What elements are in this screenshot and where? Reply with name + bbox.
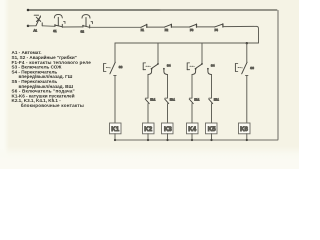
wire: S3 column upper — [114, 43, 116, 62]
selector switch S4 (forward/off/reverse GSh) — [143, 63, 167, 75]
svg-text:блокировочные контакты: блокировочные контакты — [21, 102, 84, 108]
coil K3 — [162, 123, 174, 134]
wire: K4 to bottom rail — [191, 134, 193, 140]
node: K4 junction on bottom rail — [191, 139, 193, 141]
wire: control bus S1 to S2 — [62, 26, 83, 28]
wire: S6 column lower to coil K6 — [246, 76, 248, 124]
wire: branch to K5 — [211, 75, 213, 98]
wire: branch to K3 — [167, 75, 169, 98]
switch S3 (coolant on-switch) — [104, 62, 117, 75]
wire: top supply bus — [28, 9, 161, 11]
switch S6 (feed on-switch) — [235, 62, 248, 75]
wire: ladder top rail — [115, 42, 259, 44]
interlock contact K4.1 — [189, 98, 193, 104]
coil K1 — [110, 123, 122, 134]
contact F2 (thermal relay) — [165, 24, 172, 27]
pushbutton S2 (emergency mushroom) — [82, 15, 93, 28]
svg-text:K4: K4 — [188, 126, 196, 133]
wire: K1 to bottom rail — [114, 134, 116, 140]
wire: control bus F1 to F2 — [147, 26, 165, 28]
svg-text:K2.1: K2.1 — [150, 99, 156, 102]
wire: control bus S2 to F1 — [90, 26, 141, 28]
node: left terminal of control bus — [27, 25, 30, 28]
svg-text:K3.1: K3.1 — [170, 99, 176, 102]
svg-text:S2: S2 — [81, 30, 85, 34]
svg-text:F1: F1 — [141, 28, 145, 32]
interlock contact K2.1 — [145, 98, 149, 104]
svg-text:K3: K3 — [164, 126, 172, 133]
interlock contact K5.1 — [209, 98, 213, 104]
coil K4 — [187, 123, 199, 134]
wire: S4 column drop — [157, 43, 159, 63]
svg-text:K1: K1 — [111, 126, 119, 133]
wire: control bus segment to A1 — [28, 25, 36, 27]
node: K2 junction on bottom rail — [147, 139, 149, 141]
contact F1 (thermal relay) — [141, 24, 147, 27]
coil K2 — [143, 123, 155, 134]
wire: branch K3 contact to coil — [167, 104, 169, 124]
legend text block — [12, 50, 92, 108]
svg-text:A1: A1 — [34, 28, 38, 32]
node: K1 junction on bottom rail — [114, 139, 116, 141]
node: left terminal of top bus — [27, 9, 30, 12]
node: K5 junction on bottom rail — [210, 139, 212, 141]
svg-text:F4: F4 — [215, 28, 219, 32]
svg-text:K4.1: K4.1 — [194, 99, 200, 102]
wire: S3 column lower to coil K1 — [114, 76, 116, 124]
wire: control bus F4 to right corner, down to ladder rail — [223, 26, 258, 43]
node: K3 junction on bottom rail — [166, 139, 168, 141]
contact F4 (thermal relay) — [215, 24, 223, 27]
svg-text:K6: K6 — [240, 126, 248, 133]
contact F3 (thermal relay) — [190, 24, 197, 27]
pushbutton S1 (emergency mushroom) — [54, 14, 65, 27]
svg-text:S4: S4 — [211, 63, 215, 67]
wire: S5 column drop — [201, 43, 203, 63]
wire: branch K5 contact to coil — [211, 104, 213, 124]
interlock contact K3.1 — [165, 98, 169, 104]
wire: control bus F2 to F3 — [172, 26, 190, 28]
wire: K6 to bottom rail — [246, 134, 248, 140]
wire: right side down-rail — [277, 11, 279, 140]
wire: branch to K2 — [147, 75, 149, 98]
wire: K5 to bottom rail — [211, 134, 213, 140]
node: K6 junction on bottom rail — [246, 139, 248, 141]
wire: control bus F3 to F4 — [197, 26, 215, 28]
wire: branch to K4 — [191, 75, 193, 98]
wire: top supply bus right half — [160, 9, 277, 11]
svg-text:K5.1: K5.1 — [214, 99, 220, 102]
wire: control bus A1 to S1 — [42, 25, 55, 28]
svg-text:S4: S4 — [167, 63, 171, 67]
selector switch S5 (forward/off/reverse VSh) — [187, 63, 211, 75]
svg-text:S3: S3 — [119, 65, 123, 69]
svg-text:S6: S6 — [250, 66, 254, 70]
wire: K2 to bottom rail — [147, 134, 149, 140]
svg-text:S1: S1 — [53, 29, 57, 33]
wire: bottom return rail — [115, 139, 278, 141]
svg-text:K5: K5 — [208, 126, 216, 133]
node: junction of S6 column on rail — [246, 42, 248, 44]
svg-text:F3: F3 — [190, 28, 194, 32]
wire: S6 column upper — [246, 43, 248, 62]
wire: branch K4 contact to coil — [191, 104, 193, 124]
coil K5 — [206, 123, 218, 134]
breaker A1 — [34, 15, 42, 26]
svg-text:F2: F2 — [165, 28, 169, 32]
wire: K3 to bottom rail — [167, 134, 169, 140]
svg-text:K2: K2 — [144, 126, 152, 133]
coil K6 — [239, 123, 251, 134]
wire: branch K2 contact to coil — [147, 104, 149, 124]
